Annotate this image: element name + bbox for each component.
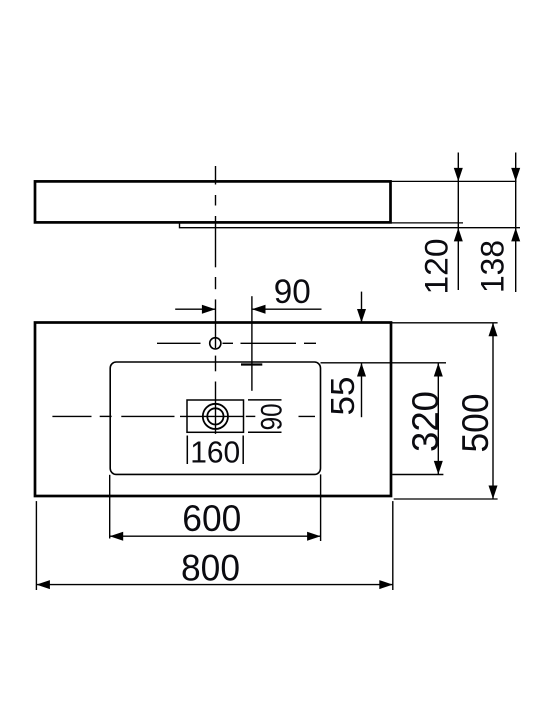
- overflow slot tick: [241, 363, 262, 365]
- side view lip: [180, 222, 521, 227]
- dimension line 55: [357, 292, 366, 418]
- drain rectangle: [187, 400, 244, 432]
- dimension line 320: [434, 363, 443, 474]
- plan horizontal centerline y=416.4: [52, 415, 315, 417]
- svg-text:500: 500: [455, 394, 496, 453]
- svg-text:120: 120: [418, 239, 454, 295]
- 800 right extension: [392, 501, 394, 590]
- faucet centerline horizontal: [157, 342, 316, 344]
- drain inner circle: [207, 408, 223, 424]
- svg-text:320: 320: [405, 391, 446, 452]
- side view basin body outline: [35, 181, 391, 222]
- dimension line 600: [110, 532, 321, 541]
- drain 90 dim ticks: [248, 399, 282, 401]
- 500 top reference line: [392, 322, 498, 324]
- 500 bottom reference line: [394, 498, 498, 500]
- svg-text:600: 600: [182, 498, 241, 539]
- 160 dim ticks: [186, 436, 188, 465]
- plan view outer rectangle: [35, 323, 391, 497]
- dimension line 800: [36, 580, 392, 589]
- faucet hole circle: [210, 338, 221, 349]
- dimension line 120: [454, 153, 463, 291]
- 800 left extension: [35, 501, 37, 590]
- dimension line 500: [489, 323, 498, 499]
- side view top edge extension line: [391, 180, 517, 182]
- svg-text:138: 138: [475, 240, 511, 293]
- svg-text:800: 800: [181, 547, 240, 588]
- 320 bottom reference tick: [392, 474, 443, 476]
- svg-text:90: 90: [255, 403, 288, 430]
- svg-text:160: 160: [190, 434, 240, 469]
- bowl-top reference line (55/320 dims): [321, 362, 447, 364]
- svg-text:55: 55: [324, 377, 361, 416]
- 600 right extension: [320, 474, 322, 541]
- 600 left extension: [109, 475, 111, 539]
- centerline x=215.5 vertical (side view + plan): [215, 166, 217, 434]
- dimension 90 top: [175, 305, 321, 314]
- svg-text:90: 90: [274, 273, 311, 311]
- side view bottom edge extension line (120 dim): [391, 222, 464, 224]
- overflow line x=251.9: [251, 296, 253, 391]
- plan view bowl rounded rectangle: [110, 362, 320, 474]
- dimension line 138: [511, 153, 520, 293]
- drain outer circle: [203, 404, 228, 429]
